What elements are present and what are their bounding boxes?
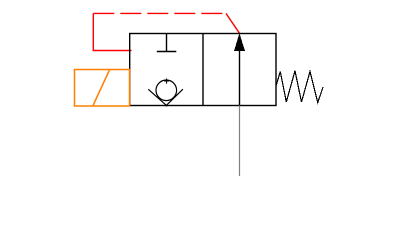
solenoid SOL1 box (orange) <box>75 70 130 107</box>
pilot line P1 (red): solid run from valve left edge to vertical riser <box>93 13 131 50</box>
valve body V1 divider wall <box>202 34 204 106</box>
check valve CV1 ball (circle) <box>156 80 177 101</box>
check valve CV1 seat (V lines) <box>148 89 183 106</box>
flow arrow A1 shaft (inside body) <box>239 35 241 106</box>
drain line D1 (gray, below body) <box>239 106 241 177</box>
spring S1 (zigzag, right of body) <box>276 71 323 103</box>
pilot line P1 (red): dashed horizontal run <box>93 12 226 14</box>
closed-port T symbol T1 bar <box>157 51 177 53</box>
closed-port T symbol T1 stem <box>166 34 168 52</box>
solenoid SOL1 diagonal stroke <box>93 70 110 107</box>
flow arrow A1 head (solid) <box>234 33 245 51</box>
pilot line P1 (red): diagonal drop to arrow tip <box>226 13 239 33</box>
check valve CV1 top cross marker <box>164 79 169 84</box>
valve body V1 (envelope rectangle) <box>130 34 276 106</box>
